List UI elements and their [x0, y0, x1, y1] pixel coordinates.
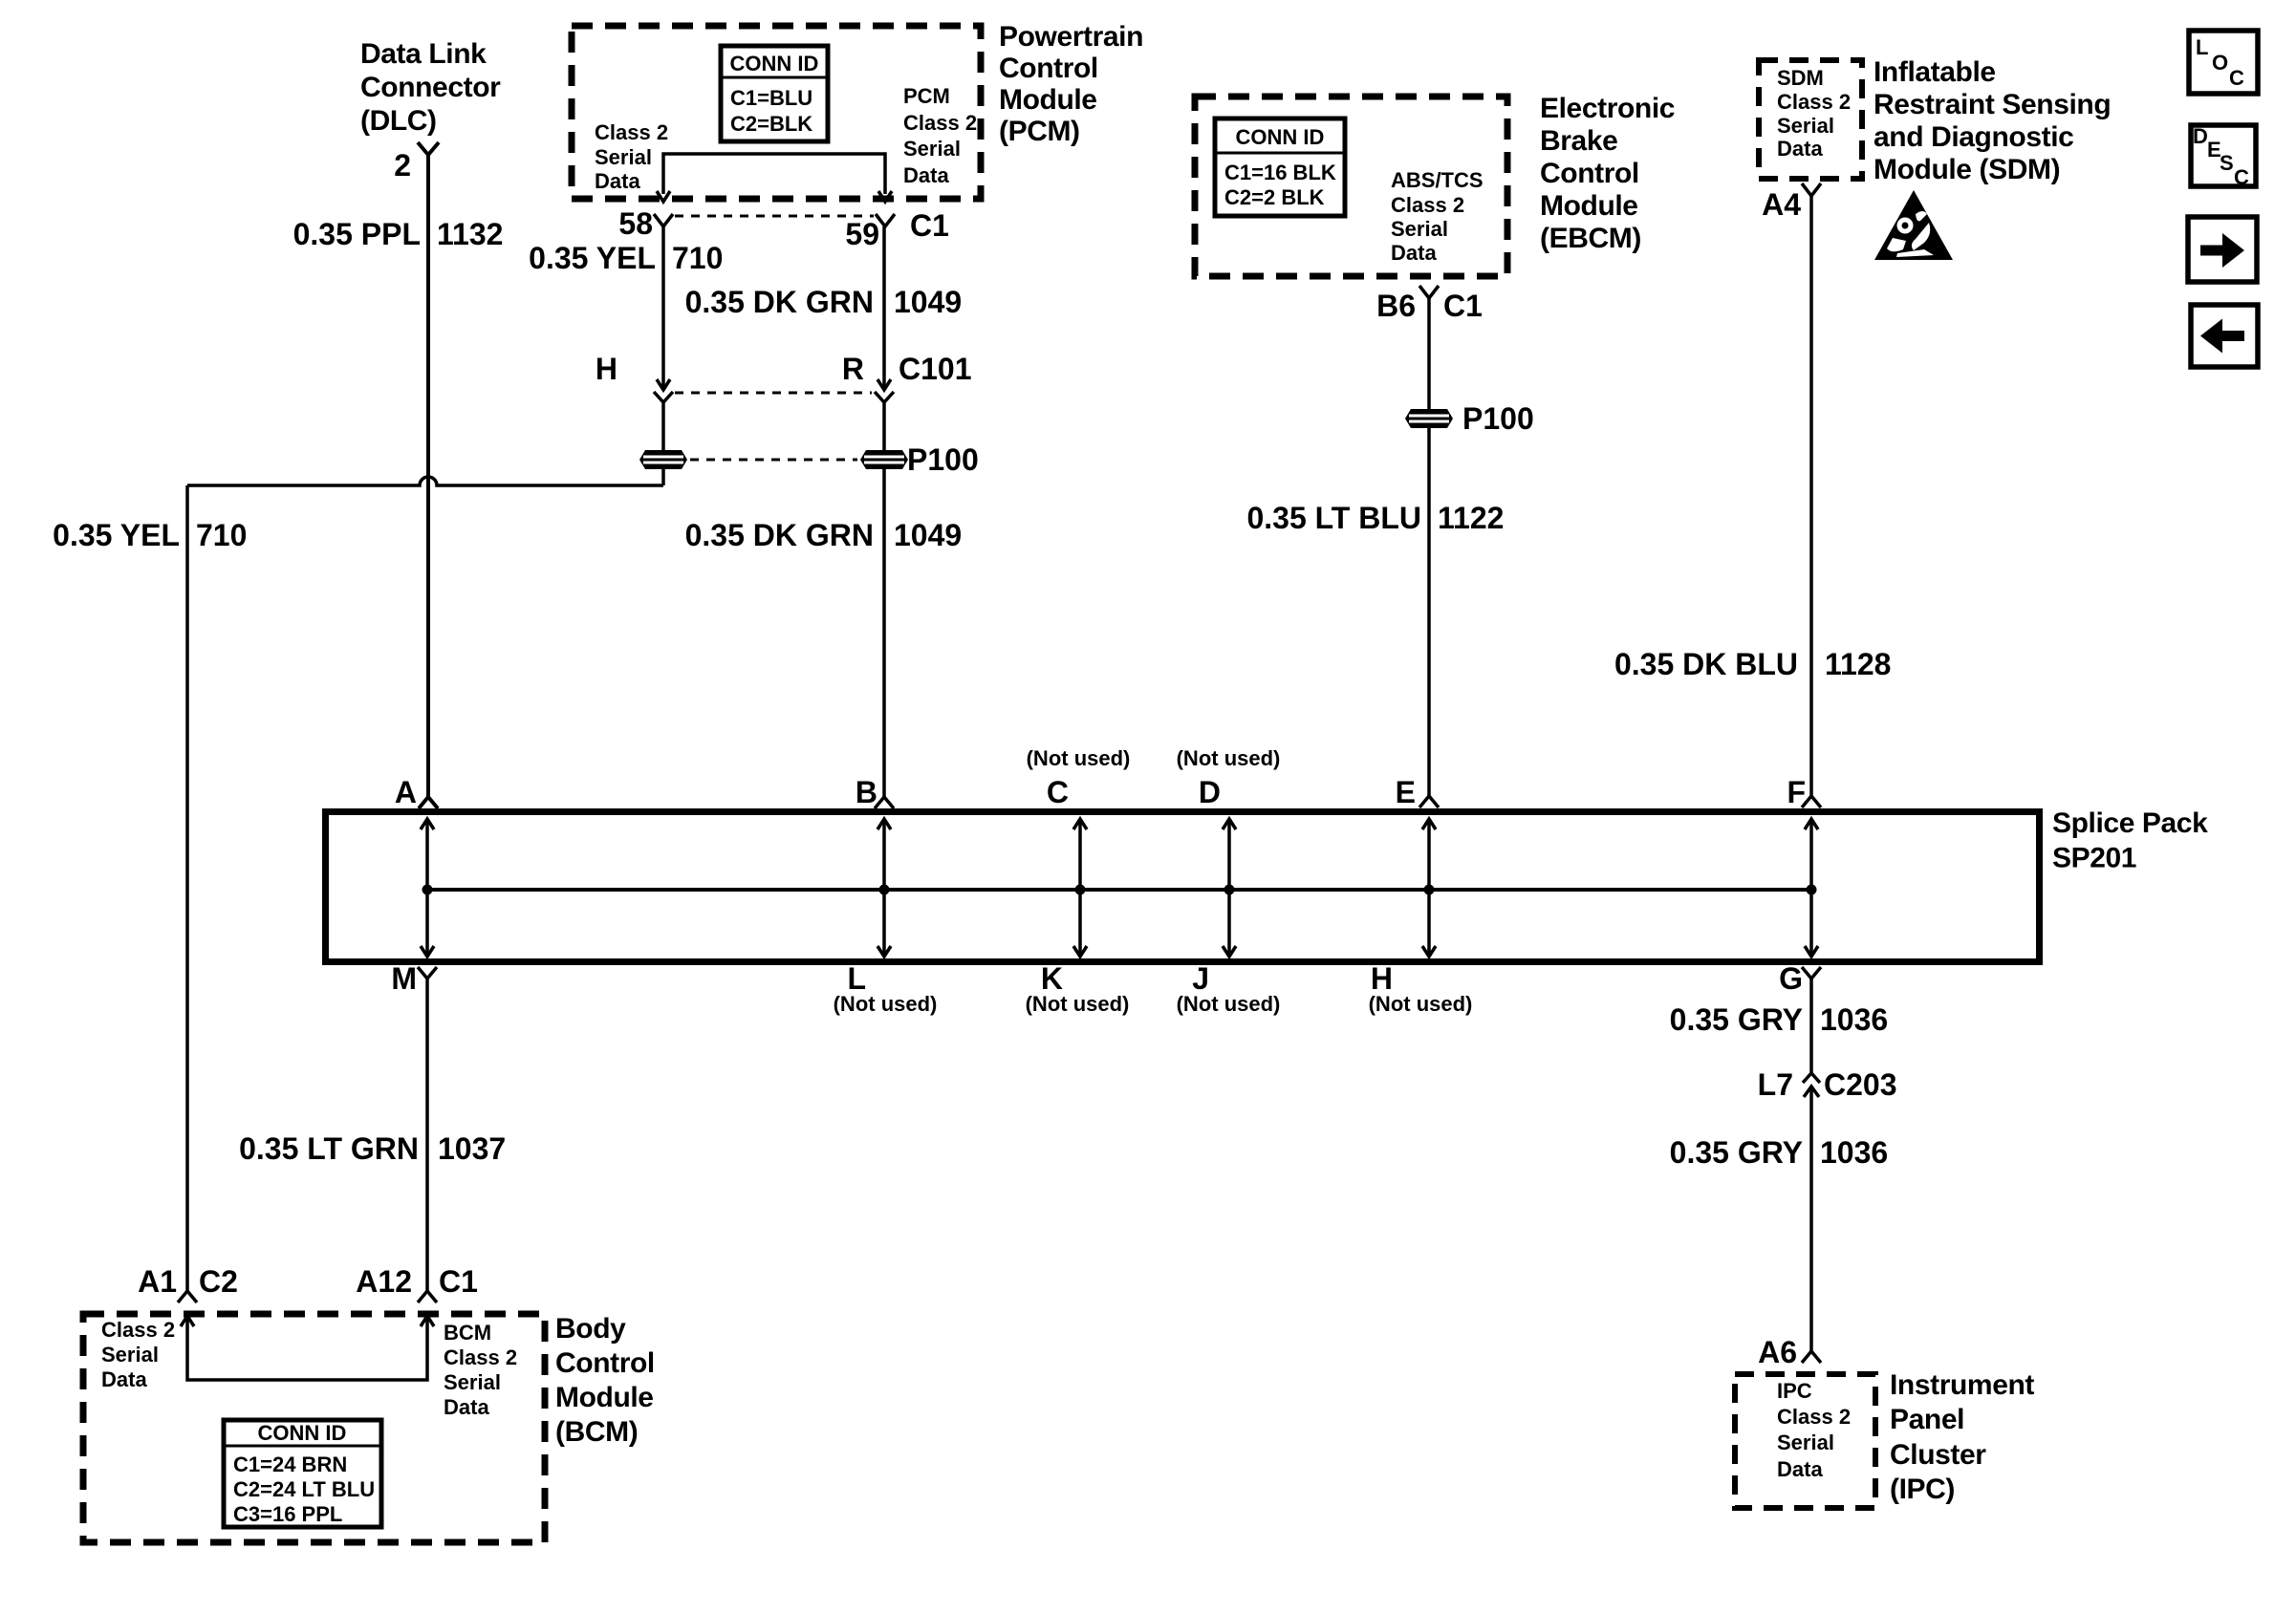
svg-text:SDM: SDM — [1777, 66, 1824, 90]
pin 2 connector fork — [418, 142, 439, 155]
splice leg A — [421, 819, 434, 957]
svg-text:Class 2: Class 2 — [444, 1345, 517, 1369]
pin 58 connector fork — [654, 214, 673, 226]
svg-text:Class 2: Class 2 — [101, 1318, 175, 1342]
splice leg C — [1073, 819, 1087, 957]
svg-text:(Not used): (Not used) — [1177, 746, 1281, 770]
svg-text:1049: 1049 — [894, 285, 962, 319]
wire label 0.35 YEL 710 (left) — [53, 518, 247, 552]
C101 connector at H: arrowhead and chevron — [654, 379, 673, 402]
svg-text:K: K — [1041, 961, 1063, 996]
pin A1 connector fork (BCM) — [178, 1291, 197, 1302]
svg-text:Instrument: Instrument — [1890, 1369, 2034, 1401]
junction dot A — [422, 885, 433, 895]
svg-text:(PCM): (PCM) — [999, 116, 1080, 147]
svg-text:Data Link: Data Link — [360, 38, 487, 70]
svg-text:G: G — [1779, 961, 1803, 996]
svg-text:Control: Control — [1540, 158, 1639, 189]
IPC dashed module box — [1735, 1374, 1875, 1508]
svg-text:C2: C2 — [199, 1264, 238, 1299]
DESC button — [2191, 124, 2256, 189]
pin B6 connector fork (EBCM) — [1419, 286, 1439, 298]
pin A6 connector fork (IPC) — [1802, 1351, 1821, 1363]
svg-text:Serial: Serial — [1777, 114, 1834, 138]
svg-text:710: 710 — [196, 518, 247, 552]
wire label 0.35 DK GRN 1049 (lower) — [685, 518, 963, 552]
PCM CONN ID table — [721, 46, 828, 141]
P100 pass-through grommet (EBCM branch) — [1405, 409, 1453, 428]
svg-text:Cluster: Cluster — [1890, 1439, 1986, 1471]
svg-text:BCM: BCM — [444, 1321, 491, 1345]
LOC button — [2189, 31, 2258, 94]
svg-text:0.35 LT BLU: 0.35 LT BLU — [1246, 501, 1421, 535]
svg-text:Serial: Serial — [903, 137, 961, 161]
C203 in-line connector — [1803, 1073, 1820, 1097]
svg-text:(Not used): (Not used) — [1027, 746, 1131, 770]
svg-text:58: 58 — [618, 206, 653, 241]
svg-text:PCM: PCM — [903, 84, 950, 108]
splice leg E — [1422, 819, 1436, 957]
svg-text:Inflatable: Inflatable — [1874, 56, 1996, 88]
svg-text:(EBCM): (EBCM) — [1540, 223, 1641, 254]
BCM internal arrowhead at pin A12 — [421, 1316, 434, 1326]
svg-text:1122: 1122 — [1438, 501, 1504, 535]
svg-text:P100: P100 — [1462, 401, 1534, 436]
svg-text:Connector: Connector — [360, 72, 501, 103]
svg-text:CONN ID: CONN ID — [258, 1421, 347, 1445]
PCM Class 2 Serial Data label (right) — [903, 84, 977, 187]
wire: horizontal 0.35 YEL from PCM branch to left vertical, hops over DLC wire — [187, 477, 663, 485]
svg-text:0.35 PPL: 0.35 PPL — [293, 217, 421, 251]
svg-text:C1=BLU: C1=BLU — [730, 86, 812, 110]
IPC Class 2 Serial Data label — [1777, 1379, 1851, 1481]
svg-text:0.35 YEL: 0.35 YEL — [529, 241, 656, 275]
svg-text:(BCM): (BCM) — [555, 1416, 638, 1448]
svg-text:S: S — [2220, 151, 2234, 175]
svg-text:C1: C1 — [439, 1264, 478, 1299]
P100 pass-through grommet (left) — [639, 450, 687, 469]
svg-text:C101: C101 — [899, 352, 972, 386]
svg-text:Serial: Serial — [101, 1343, 159, 1367]
svg-text:Serial: Serial — [444, 1370, 501, 1394]
svg-text:H: H — [596, 352, 617, 386]
svg-text:Serial: Serial — [595, 145, 652, 169]
BCM internal arrowhead at pin A1 — [181, 1316, 194, 1326]
wire label 0.35 GRY 1036 (lower) — [1670, 1135, 1889, 1170]
svg-text:1049: 1049 — [894, 518, 962, 552]
svg-text:Module: Module — [1540, 190, 1638, 222]
svg-text:Class 2: Class 2 — [1777, 90, 1851, 114]
svg-text:(Not used): (Not used) — [1026, 992, 1130, 1016]
svg-text:CONN ID: CONN ID — [730, 52, 819, 75]
svg-text:Data: Data — [1777, 137, 1823, 161]
svg-text:IPC: IPC — [1777, 1379, 1812, 1403]
svg-text:Brake: Brake — [1540, 125, 1617, 157]
svg-text:(IPC): (IPC) — [1890, 1474, 1955, 1505]
C1 connector dashed line between pins 58 and 59 — [675, 215, 874, 218]
EBCM CONN ID table — [1215, 118, 1345, 216]
pin 59 connector fork — [876, 214, 895, 226]
svg-text:Data: Data — [1777, 1457, 1823, 1481]
BCM internal jumper wire between pins A1 and A12 — [187, 1319, 427, 1380]
svg-text:E: E — [1396, 775, 1416, 809]
svg-text:Class 2: Class 2 — [1777, 1405, 1851, 1429]
junction dot C — [1075, 885, 1086, 895]
svg-text:Serial: Serial — [1777, 1431, 1834, 1454]
svg-text:(Not used): (Not used) — [1369, 992, 1473, 1016]
splice leg B — [877, 819, 891, 957]
svg-text:C1=16 BLK: C1=16 BLK — [1224, 161, 1336, 184]
svg-text:F: F — [1787, 775, 1806, 809]
wire: pin 59 branch P100 down to splice pack pin B (0.35 DK GRN 1049) — [882, 469, 886, 797]
svg-text:Class 2: Class 2 — [903, 111, 977, 135]
svg-text:0.35 DK BLU: 0.35 DK BLU — [1614, 647, 1798, 681]
svg-text:A1: A1 — [138, 1264, 177, 1299]
wire: DLC pin 2 to splice pack pin A (0.35 PPL 1132) — [426, 155, 430, 797]
splice bus wire — [427, 888, 1811, 892]
PCM Class 2 Serial Data label (left) — [595, 120, 668, 193]
wire: splice G down to C203 (0.35 GRY 1036) — [1809, 979, 1813, 1075]
svg-text:(Not used): (Not used) — [1177, 992, 1281, 1016]
Data Link Connector (DLC) label — [360, 38, 501, 137]
P100 dashed connector line — [690, 459, 857, 462]
svg-text:L: L — [2196, 35, 2208, 59]
svg-text:Powertrain: Powertrain — [999, 21, 1143, 53]
svg-text:A4: A4 — [1762, 187, 1801, 222]
svg-text:C1: C1 — [1443, 289, 1483, 323]
svg-text:C1: C1 — [910, 208, 949, 243]
svg-text:1128: 1128 — [1825, 647, 1891, 681]
svg-text:Splice Pack: Splice Pack — [2052, 807, 2208, 839]
junction dot D — [1224, 885, 1235, 895]
svg-text:P100: P100 — [907, 442, 979, 477]
svg-text:Module: Module — [999, 84, 1097, 116]
pin F connector fork (splice pack) — [1802, 796, 1821, 807]
Splice Pack SP201 label — [2052, 807, 2208, 874]
C101 dashed connector line — [675, 392, 872, 395]
Body Control Module (BCM) title — [555, 1313, 655, 1448]
svg-text:J: J — [1192, 961, 1209, 996]
C101 connector at R: arrowhead and chevron — [875, 379, 894, 402]
SDM dashed module box — [1759, 60, 1862, 179]
svg-text:ABS/TCS: ABS/TCS — [1391, 168, 1484, 192]
svg-text:O: O — [2212, 51, 2228, 75]
wire label 0.35 DK BLU 1128 — [1614, 647, 1891, 681]
wire: pin 59 down to C101 — [882, 226, 886, 390]
pin A connector fork (splice pack) — [419, 797, 438, 808]
svg-text:1037: 1037 — [438, 1131, 506, 1166]
wire label 0.35 LT BLU 1122 — [1246, 501, 1504, 535]
svg-text:0.35 GRY: 0.35 GRY — [1670, 1135, 1803, 1170]
wire label 0.35 DK GRN 1049 (upper) — [685, 285, 963, 319]
wire: H chevron down to P100 (left) — [661, 402, 665, 451]
svg-text:C: C — [1047, 775, 1069, 809]
pin E connector fork (splice pack) — [1419, 796, 1439, 807]
junction dot F — [1807, 885, 1817, 895]
svg-text:0.35 DK GRN: 0.35 DK GRN — [685, 518, 874, 552]
svg-text:Control: Control — [999, 53, 1098, 84]
svg-text:1036: 1036 — [1820, 1002, 1888, 1037]
SDM Class 2 Serial Data label — [1777, 66, 1851, 161]
BCM dashed module box — [83, 1314, 545, 1542]
svg-text:C3=16 PPL: C3=16 PPL — [233, 1502, 342, 1526]
svg-text:Data: Data — [903, 163, 949, 187]
svg-text:59: 59 — [845, 217, 879, 251]
pin B connector fork (splice pack) — [875, 797, 894, 808]
Electronic Brake Control Module (EBCM) title — [1540, 93, 1675, 254]
svg-text:2: 2 — [394, 148, 411, 183]
svg-text:D: D — [1199, 775, 1221, 809]
splice leg D — [1223, 819, 1236, 957]
pin A4 connector fork (SDM) — [1802, 183, 1821, 196]
svg-text:Panel: Panel — [1890, 1404, 1964, 1435]
svg-text:A12: A12 — [356, 1264, 412, 1299]
svg-text:Electronic: Electronic — [1540, 93, 1675, 124]
wire: C203 down to IPC pin A6 (0.35 GRY 1036) — [1809, 1087, 1813, 1351]
svg-text:(Not used): (Not used) — [834, 992, 938, 1016]
svg-text:and Diagnostic: and Diagnostic — [1874, 121, 2073, 153]
BCM Class 2 Serial Data label (left) — [101, 1318, 175, 1391]
wire label 0.35 PPL 1132 — [293, 217, 504, 251]
svg-text:Data: Data — [1391, 241, 1437, 265]
svg-text:SP201: SP201 — [2052, 843, 2136, 874]
svg-text:Class 2: Class 2 — [595, 120, 668, 144]
forward arrow button — [2188, 217, 2257, 282]
wire: left vertical 0.35 YEL 710 down to BCM pin A1 — [185, 485, 189, 1291]
svg-text:Data: Data — [595, 169, 640, 193]
svg-text:710: 710 — [672, 241, 723, 275]
Instrument Panel Cluster (IPC) title — [1890, 1369, 2034, 1505]
PCM internal jumper wire between pins 58 and 59 — [663, 154, 885, 194]
svg-text:0.35 DK GRN: 0.35 DK GRN — [685, 285, 874, 319]
svg-text:C2=BLK: C2=BLK — [730, 112, 812, 136]
svg-text:R: R — [842, 352, 864, 386]
wire: R chevron down to P100 (right) — [882, 402, 886, 451]
pin A12 connector fork (BCM) — [418, 1291, 437, 1302]
svg-text:C1=24 BRN: C1=24 BRN — [233, 1453, 347, 1476]
splice leg F — [1805, 819, 1818, 957]
wire: pin 58 down to C101 — [661, 226, 665, 390]
wire: P100 down to horizontal YEL wire — [661, 469, 665, 485]
svg-text:Control: Control — [555, 1347, 655, 1379]
junction dot E — [1424, 885, 1435, 895]
Splice Pack SP201 box — [326, 812, 2040, 962]
svg-text:0.35 GRY: 0.35 GRY — [1670, 1002, 1803, 1037]
svg-text:Class 2: Class 2 — [1391, 193, 1464, 217]
EBCM dashed module box — [1195, 97, 1507, 276]
wire: SDM A4 down to splice pack pin F (0.35 DK BLU 1128) — [1809, 196, 1813, 796]
svg-text:D: D — [2193, 124, 2208, 148]
svg-text:Data: Data — [101, 1367, 147, 1391]
pin M connector fork (splice pack) — [418, 967, 437, 979]
svg-text:C2=2 BLK: C2=2 BLK — [1224, 185, 1325, 209]
wire: B6 down to P100 — [1427, 298, 1431, 410]
svg-text:Restraint Sensing: Restraint Sensing — [1874, 89, 2111, 120]
wire: P100 down to splice pack pin E (0.35 LT BLU 1122) — [1427, 428, 1431, 796]
svg-text:1036: 1036 — [1820, 1135, 1888, 1170]
BCM CONN ID table — [224, 1420, 381, 1527]
junction dot B — [879, 885, 890, 895]
wire: splice M down to BCM pin A12 (0.35 LT GRN 1037) — [425, 979, 429, 1291]
svg-text:Module: Module — [555, 1382, 654, 1413]
svg-text:(DLC): (DLC) — [360, 105, 437, 137]
svg-text:Serial: Serial — [1391, 217, 1448, 241]
svg-text:C: C — [2234, 165, 2249, 189]
svg-text:L7: L7 — [1758, 1067, 1793, 1102]
svg-text:1132: 1132 — [437, 217, 503, 251]
back arrow button — [2191, 305, 2258, 367]
svg-text:B6: B6 — [1376, 289, 1416, 323]
svg-text:Data: Data — [444, 1395, 489, 1419]
Inflatable Restraint Sensing and Diagnostic Module (SDM) title — [1874, 56, 2111, 185]
svg-text:A6: A6 — [1758, 1335, 1797, 1369]
svg-text:C: C — [2229, 66, 2244, 90]
ABS/TCS Class 2 Serial Data label — [1391, 168, 1484, 265]
svg-text:A: A — [395, 775, 417, 809]
svg-text:0.35 LT GRN: 0.35 LT GRN — [239, 1131, 419, 1166]
svg-text:L: L — [847, 961, 866, 996]
svg-text:Body: Body — [555, 1313, 626, 1345]
wire label 0.35 GRY 1036 (upper) — [1670, 1002, 1889, 1037]
svg-text:C203: C203 — [1824, 1067, 1897, 1102]
PCM dashed module box — [572, 26, 981, 199]
PCM internal arrowhead at pin 59 — [878, 191, 892, 202]
svg-text:CONN ID: CONN ID — [1236, 125, 1325, 149]
svg-text:0.35 YEL: 0.35 YEL — [53, 518, 180, 552]
airbag warning triangle icon — [1874, 190, 1953, 260]
PCM internal arrowhead at pin 58 — [657, 191, 670, 202]
svg-text:B: B — [856, 775, 877, 809]
pin G connector fork (splice pack) — [1802, 967, 1821, 979]
BCM Class 2 Serial Data label (right) — [444, 1321, 517, 1419]
svg-text:M: M — [391, 961, 417, 996]
wire label 0.35 YEL 710 (pin 58) — [529, 241, 723, 275]
svg-text:H: H — [1371, 961, 1393, 996]
Powertrain Control Module (PCM) title — [999, 21, 1143, 147]
P100 pass-through grommet (right) — [860, 450, 908, 469]
svg-text:Module (SDM): Module (SDM) — [1874, 154, 2060, 185]
svg-text:C2=24 LT BLU: C2=24 LT BLU — [233, 1477, 375, 1501]
wire label 0.35 LT GRN 1037 — [239, 1131, 506, 1166]
